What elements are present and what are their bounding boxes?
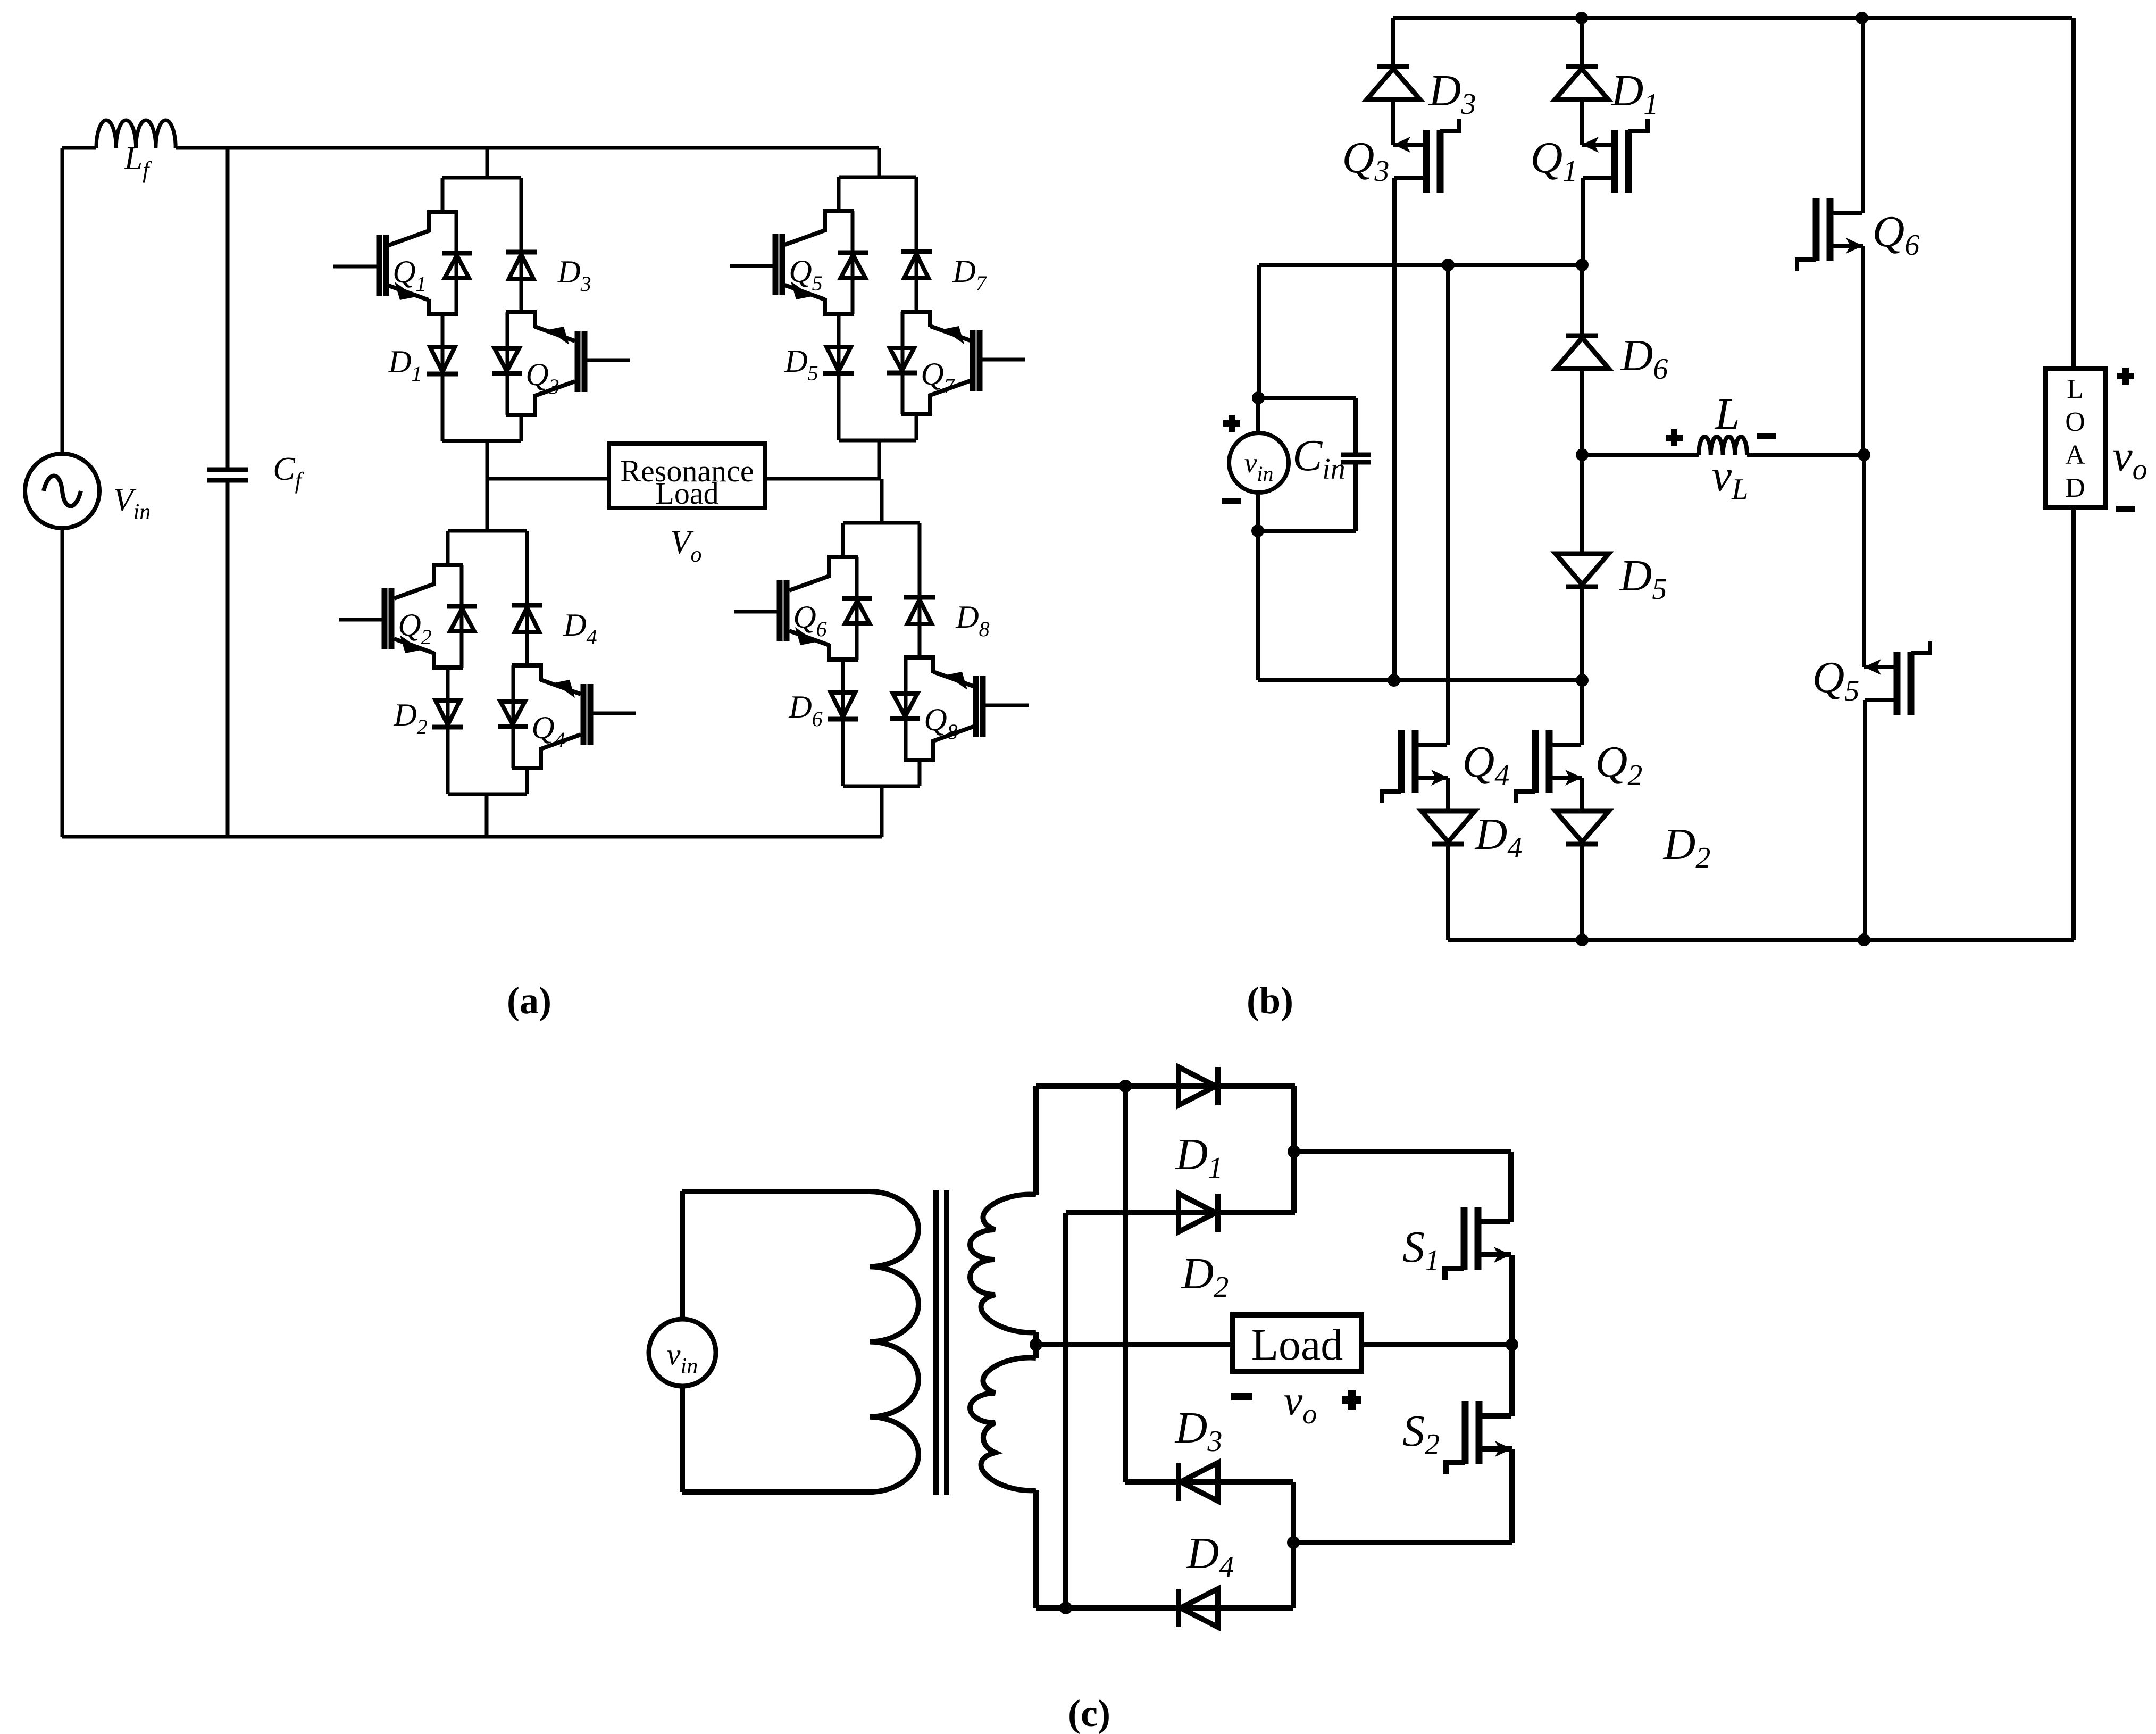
svg-text:(a): (a) [507,979,551,1022]
svg-text:L: L [1715,389,1740,439]
svg-text:O: O [2065,407,2085,437]
svg-text:A: A [2065,440,2085,470]
svg-text:L: L [2067,374,2084,404]
svg-text:Load: Load [1251,1320,1343,1370]
svg-text:Load: Load [655,476,718,511]
svg-text:(b): (b) [1247,979,1293,1022]
svg-text:(c): (c) [1068,1692,1110,1734]
svg-text:D: D [2065,473,2085,503]
